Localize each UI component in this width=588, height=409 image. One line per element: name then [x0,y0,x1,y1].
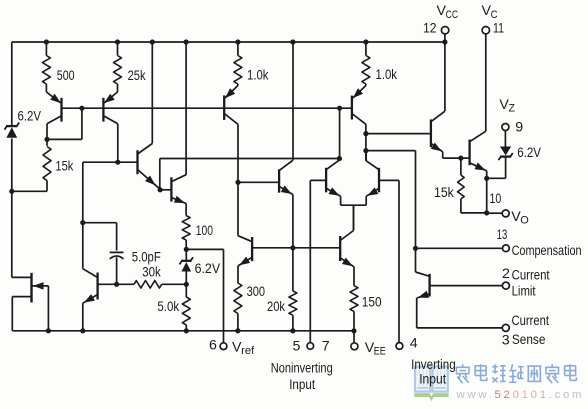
label 13 [497,227,508,243]
node bottom rail junction [46,328,51,333]
wire inv input riser [379,180,399,342]
wire Q4 base [160,189,171,191]
svg-text:Current: Current [512,313,550,329]
wire left rail lower [11,139,13,278]
svg-text:C: C [491,9,498,21]
capacitor 5.0pF [110,252,124,284]
svg-text:12: 12 [423,21,437,37]
wire bottom VEE rail [12,330,354,332]
transistor Q15 output [431,42,461,158]
label 5 [293,338,301,354]
node bottom rail junction [235,328,240,333]
label 11 [493,21,504,37]
label VC [482,3,498,21]
svg-text:6.2V: 6.2V [195,261,221,277]
zener D3 6.2V [487,131,513,179]
svg-text:5: 5 [293,338,301,354]
label Noninverting Input [289,377,315,393]
node top rail junction [363,39,368,44]
zener D2 6.2V [180,249,193,284]
label Inverting [411,357,456,373]
wire cap top [83,223,117,251]
label Inverting Input [419,371,446,387]
node top rail junction [184,39,189,44]
node VO junction [484,210,489,215]
svg-text:100: 100 [196,223,213,239]
node top rail junction [290,39,295,44]
label 25k [128,68,147,84]
node Q1 base-collector tie [44,106,84,142]
label D2 6.2V [195,261,221,277]
watermark logo [414,367,448,402]
resistor 25k [114,42,122,92]
node Q5 collector node [235,180,240,185]
resistor 150 [350,286,358,331]
node Q15 emitter junction [458,156,463,161]
svg-text:Compensation: Compensation [512,243,582,259]
watermark url [456,389,585,401]
transistor Q10 [238,236,252,283]
resistor 15k left [9,139,51,194]
node gain stage collector [80,220,85,225]
label 1.0k right [376,67,398,83]
svg-text:300: 300 [247,284,265,300]
svg-text:1.0k: 1.0k [376,67,398,83]
transistor Q3 [138,42,161,189]
label 1.0k left [247,68,269,84]
label 15k left [55,159,74,175]
svg-text:4: 4 [410,336,418,352]
label 500 [57,68,75,84]
resistor 5.0k [182,284,190,331]
svg-text:500: 500 [57,68,75,84]
transistor J1 FET [12,273,49,331]
svg-text:6.2V: 6.2V [18,108,42,124]
label Current1 [512,268,550,284]
svg-text:2: 2 [502,266,510,282]
svg-text:Inverting: Inverting [411,357,456,373]
transistor Q12 right diff [366,151,379,206]
wire compensation [416,247,503,249]
node Q3 emitter junction [158,187,163,192]
svg-text:9: 9 [515,120,523,136]
terminal pin 12 VCC [441,27,448,43]
node cap bottom [114,282,119,287]
label 5.0k [157,299,180,315]
svg-text:5.0k: 5.0k [157,299,180,315]
wire emitter bridge [341,205,367,230]
label Sense [512,332,546,348]
node bottom rail junction [184,328,189,333]
resistor 1.0k right [362,42,370,86]
label 10 [490,191,502,207]
label 12 [423,21,437,37]
svg-text:Sense: Sense [512,332,546,348]
resistor 100 [182,216,190,250]
terminal pin 9 VZ [502,124,509,131]
node A [184,282,189,287]
transistor Q8 [352,86,366,161]
node compensation [413,246,418,251]
wire top VCC rail [12,41,445,43]
wire bias line [62,107,352,109]
label 5.0pF [132,249,161,265]
transistor Q4 [171,42,186,216]
svg-text:Current: Current [512,268,550,284]
svg-text:CC: CC [446,9,459,21]
terminal pin 2 current limit [502,282,509,289]
label Vref [232,340,255,358]
svg-text:Limit: Limit [512,284,536,300]
label 100 [196,223,213,239]
label Compensation [512,243,582,259]
terminal pin 11 VC [482,27,489,34]
label VEE [365,340,386,358]
label Current2 [512,313,550,329]
svg-text:Z: Z [508,102,515,114]
svg-text:11: 11 [493,21,504,37]
transistor Q6 [83,223,98,331]
svg-text:7: 7 [322,338,330,354]
label VO [511,209,529,227]
svg-text:25k: 25k [128,68,147,84]
node base junction [290,245,295,250]
wire drive to output base [366,133,431,135]
label 30k [142,264,161,280]
transistor Q9 [279,42,293,248]
svg-text:EE: EE [374,345,386,357]
node VZ emitter junction [484,176,489,213]
node top rail junction [150,39,155,44]
svg-text:15k: 15k [55,159,74,175]
label Limit [512,284,536,300]
resistor 500 [42,42,50,92]
svg-text:10: 10 [490,191,502,207]
svg-text:Noninverting: Noninverting [271,361,333,377]
transistor Q2 [103,92,117,162]
transistor Q5 [224,86,238,183]
svg-text:15k: 15k [434,185,455,201]
label 9 [515,120,523,136]
svg-text:20k: 20k [267,299,286,315]
wire noninv input riser [310,180,326,342]
node top rail junction [115,39,120,44]
label 300 [247,284,265,300]
resistor 20k [289,248,297,331]
terminal pin 5 [307,343,314,350]
wire Q5-Q10 link [237,182,239,235]
label 4 [410,336,418,352]
label Noninverting [271,361,333,377]
label 3 [502,333,510,349]
terminal pin 3 current sense [502,324,509,331]
transistor Q16 output2 [461,34,487,179]
node top rail junction [235,39,240,44]
terminal pin 4 [396,343,403,350]
svg-text:150: 150 [362,294,382,310]
svg-text:ref: ref [241,345,255,357]
svg-text:1.0k: 1.0k [247,68,269,84]
transistor Q14 current limit [416,248,503,328]
wire Q3 base [118,161,138,163]
node Q2 collector junction [115,160,120,165]
transistor Q11 [340,205,354,286]
node Vref top [184,247,189,252]
svg-text:6: 6 [209,337,217,353]
svg-text:3: 3 [502,333,510,349]
node drive lower [363,148,368,153]
label 7 [322,338,330,354]
label VCC [437,3,459,21]
svg-text:Input: Input [289,377,315,393]
transistor Q7 left diff [326,159,341,206]
label 6 [209,337,217,353]
wire left rail upper [11,42,13,125]
zener D1 6.2V [4,123,19,138]
terminal pin 7 VEE [351,331,358,350]
node VCC rail end [442,39,447,44]
label 2 [502,266,510,282]
svg-text:13: 13 [497,227,508,243]
wire mirror line [160,159,340,190]
label D1 6.2V [18,108,42,124]
resistor 1.0k left [234,42,242,86]
terminal pin 10 VO [487,210,510,217]
label 150 [362,294,382,310]
node bottom rail junction [290,328,295,333]
node top rail junction [44,39,49,44]
node bias tap [337,106,342,161]
label 20k [267,299,286,315]
node VEE junction [351,328,356,333]
label VZ [499,97,515,115]
label D3 6.2V [517,145,541,161]
terminal pin 13 compensation [503,245,510,252]
label 15k right [434,185,455,201]
watermark CJK text [456,364,577,383]
node drive upper [363,131,368,136]
resistor 30k [98,281,187,289]
wire drive to compensation [366,151,416,249]
svg-text:Input: Input [419,371,446,387]
wire Q10-Q11 base line [252,247,340,249]
svg-text:30k: 30k [142,264,161,280]
resistor 300 [234,283,242,331]
terminal pin 6 Vref [220,343,227,350]
wire Vref [186,249,223,342]
svg-text:www.520101.com: www.520101.com [456,389,585,401]
transistor Q1 [46,92,61,139]
resistor 15k right [458,158,487,213]
wire Q9 base [238,181,279,183]
wire to gain stage [83,162,118,223]
svg-text:5.0pF: 5.0pF [132,249,161,265]
svg-text:6.2V: 6.2V [517,145,541,161]
svg-text:O: O [520,215,529,227]
node bottom rail junction [80,328,85,333]
